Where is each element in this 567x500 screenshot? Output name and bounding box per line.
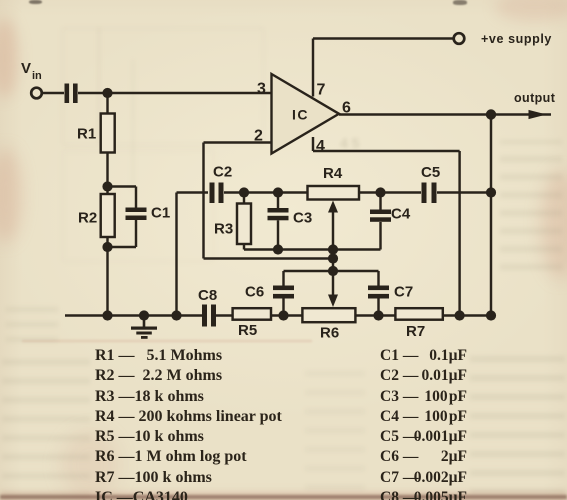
resistor R3: [237, 193, 251, 250]
R4/R6 wiper link with arrows: [328, 201, 338, 308]
node ground rail/C2 branch: [171, 310, 181, 320]
node top rail/R3: [239, 187, 249, 197]
node C/wiper: [328, 266, 338, 276]
potentiometer R4: [308, 186, 360, 200]
label Vin: [21, 60, 42, 82]
capacitor C6: [273, 271, 294, 316]
+ve supply terminal: [454, 33, 465, 44]
node output/feedback junction: [486, 109, 496, 119]
ghost print-through text columns: [500, 140, 562, 270]
capacitor C4: [370, 193, 391, 222]
wire pin 7 to +ve supply: [313, 39, 453, 97]
ghost print-through: top-left faint schematic: [62, 28, 264, 145]
wire coupling capacitor to op-amp pin 3: [78, 92, 272, 94]
node top rail/C4: [375, 187, 385, 197]
top rail C2 to C5: [224, 191, 491, 193]
node A/C3: [273, 244, 283, 254]
op-amp U1: [272, 74, 340, 154]
capacitor C7: [368, 271, 389, 316]
wire R2 bottom to ground rail: [106, 237, 108, 316]
node top rail/C3: [273, 187, 283, 197]
input terminal: [31, 88, 42, 99]
input coupling capacitor: [65, 84, 78, 104]
node pin 4/ground rail: [455, 310, 465, 320]
wire input terminal to coupling capacitor: [43, 92, 65, 94]
scan artifacts top edge: [29, 0, 42, 4]
capacitor C1: [108, 187, 147, 248]
line C C6 to C7: [284, 270, 379, 272]
node R1/R2/C1 junction: [102, 181, 112, 191]
bottom dark rule band: [0, 492, 567, 500]
wire pin 4 to ground rail: [313, 137, 460, 316]
capacitor C3: [268, 193, 289, 250]
ground: [131, 316, 157, 339]
node feedback/ground rail: [486, 310, 496, 320]
capacitor C2: [210, 183, 224, 204]
node A/wiper: [328, 244, 338, 254]
resistor R7: [395, 308, 442, 320]
capacitor C5: [422, 183, 437, 204]
wire R1 to R2: [106, 153, 108, 195]
resistor R5: [233, 308, 271, 320]
node ground rail/C6: [278, 310, 288, 320]
wire pin 2 to wiper node B: [204, 143, 334, 259]
ground rail: [65, 314, 491, 316]
node ground rail/R2 branch: [102, 310, 112, 320]
capacitor C8: [202, 305, 216, 327]
potentiometer R6: [302, 308, 355, 322]
wire pin 6 output line: [339, 113, 551, 115]
node feedback/top rail: [486, 187, 496, 197]
component list right column values: [380, 346, 467, 500]
node B/wiper: [328, 253, 338, 263]
node input/R1 junction: [102, 88, 112, 98]
component list left column: [95, 346, 282, 500]
node ground rail/C7: [373, 310, 383, 320]
resistor R1: [101, 93, 115, 153]
resistor R2: [101, 194, 115, 237]
line A bottom of R3/C3/C4: [244, 222, 381, 250]
wire feedback vertical: [490, 115, 492, 316]
output arrow head: [529, 110, 547, 119]
node ground rail/ground: [139, 310, 149, 320]
component list right column labels: [380, 346, 418, 500]
node R2/C1 bottom junction: [102, 242, 112, 252]
wire C2 left plate down to ground rail: [177, 193, 209, 316]
